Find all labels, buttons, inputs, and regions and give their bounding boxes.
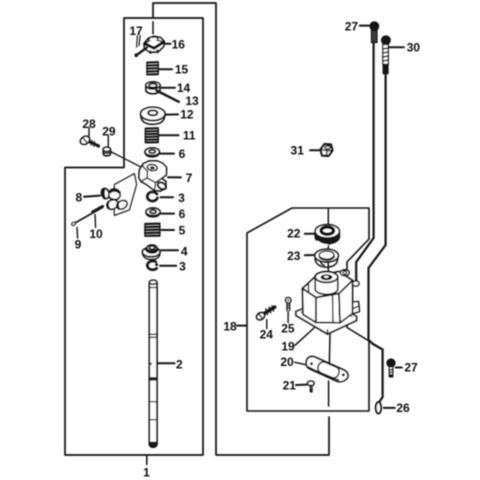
svg-text:19: 19 — [281, 340, 295, 354]
svg-text:23: 23 — [287, 249, 301, 263]
svg-text:6: 6 — [179, 207, 186, 221]
svg-text:16: 16 — [172, 37, 186, 51]
svg-text:12: 12 — [180, 108, 194, 122]
svg-text:9: 9 — [75, 238, 82, 252]
svg-text:2: 2 — [176, 357, 183, 371]
svg-text:8: 8 — [75, 190, 82, 204]
svg-text:7: 7 — [186, 171, 193, 185]
svg-text:22: 22 — [287, 227, 301, 241]
svg-text:6: 6 — [179, 147, 186, 161]
svg-text:18: 18 — [223, 319, 237, 333]
svg-text:5: 5 — [179, 223, 186, 237]
svg-text:3: 3 — [178, 191, 185, 205]
svg-text:26: 26 — [396, 401, 410, 415]
svg-text:17: 17 — [129, 24, 143, 38]
svg-text:28: 28 — [82, 117, 96, 131]
svg-text:4: 4 — [181, 245, 188, 259]
svg-text:27: 27 — [345, 19, 359, 33]
svg-text:27: 27 — [404, 361, 418, 375]
svg-text:20: 20 — [280, 355, 294, 369]
svg-text:11: 11 — [183, 129, 196, 143]
svg-text:13: 13 — [185, 94, 199, 108]
svg-text:29: 29 — [102, 125, 116, 139]
svg-text:3: 3 — [179, 260, 186, 274]
svg-text:10: 10 — [89, 227, 103, 241]
svg-text:31: 31 — [291, 143, 305, 157]
svg-text:14: 14 — [177, 81, 191, 95]
svg-text:21: 21 — [283, 379, 297, 393]
svg-text:30: 30 — [407, 41, 421, 55]
svg-text:25: 25 — [281, 322, 295, 336]
svg-text:24: 24 — [260, 327, 274, 341]
svg-text:15: 15 — [175, 62, 189, 76]
svg-text:1: 1 — [143, 465, 150, 479]
